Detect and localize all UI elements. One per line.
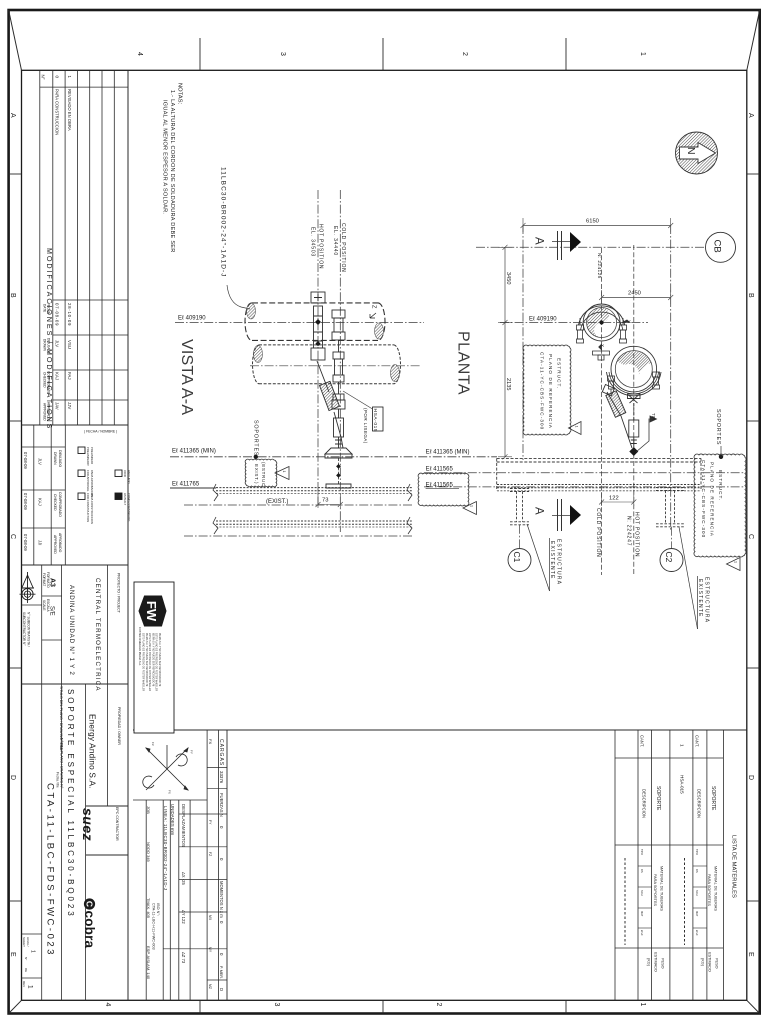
svg-text:N°: N° (41, 75, 46, 80)
svg-text:N: 224125: N: 224125 (596, 253, 602, 279)
dim 73 vista (317, 490, 319, 508)
svg-text:1: 1 (733, 561, 737, 563)
svg-text:1: 1 (470, 505, 474, 507)
svg-text:FZ: FZ (208, 852, 212, 856)
materials table verticals (614, 730, 616, 1000)
svg-text:FW: FW (144, 601, 159, 622)
clamp arcs circle 2 (607, 372, 662, 396)
svg-text:07-08-09: 07-08-09 (23, 534, 28, 551)
svg-text:2135: 2135 (505, 378, 511, 390)
svg-text:PROPIEDAD / OWNER: PROPIEDAD / OWNER (117, 707, 121, 745)
title block grid lines (22, 683, 129, 685)
loads table horizontals (207, 767, 227, 769)
svg-text:PARA SOPORTES: PARA SOPORTES (707, 874, 711, 906)
svg-text:SUBCONTRACTOR N°: SUBCONTRACTOR N° (22, 612, 26, 646)
svg-text:SOPORTE: SOPORTE (655, 786, 661, 811)
dim 6150 (523, 225, 671, 227)
signature block grid (33, 425, 35, 565)
cold line planta (601, 248, 603, 575)
materials table horizontals (615, 757, 723, 759)
svg-text:FOR APPROVAL: FOR APPROVAL (86, 470, 90, 492)
svg-text:TIPO: TIPO (695, 849, 699, 855)
svg-text:(KG): (KG) (647, 958, 651, 967)
pipe 2 vista (lower) (253, 345, 401, 384)
svg-text:A3: A3 (49, 578, 56, 587)
svg-text:1: 1 (639, 1003, 646, 1007)
svg-text:HSA-015: HSA-015 (680, 775, 685, 794)
clamp bolt right c1 (620, 318, 627, 343)
svg-text:N: N (685, 147, 697, 155)
grid line right planta (670, 225, 672, 530)
svg-text:07-08-09: 07-08-09 (23, 452, 28, 469)
svg-text:ΔZ 73: ΔZ 73 (181, 952, 186, 964)
svg-text:28-10-09: 28-10-09 (67, 303, 72, 326)
turnbuckle vertical (334, 409, 344, 448)
svg-text:FUERZAS N: FUERZAS N (219, 793, 224, 817)
svg-text:2450: 2450 (628, 291, 641, 297)
svg-text:D: D (9, 775, 16, 780)
FW logo emblem (139, 596, 166, 626)
hanger below circle 2 (628, 394, 641, 447)
svg-text:COLD POSITION: COLD POSITION (595, 508, 601, 558)
svg-text:LISTA DE MATERIALES: LISTA DE MATERIALES (731, 835, 737, 898)
svg-text:DN: DN (640, 869, 644, 873)
svg-text:COMPROBADO: COMPROBADO (58, 492, 62, 517)
svg-text:FOR CONSTRUCTION: FOR CONSTRUCTION (86, 493, 90, 522)
revision triangle left cloud (569, 422, 582, 435)
svg-text:D: D (219, 988, 224, 991)
svg-text:DESCRIPCION: DESCRIPCION (641, 789, 646, 818)
svg-text:REV: REV (22, 981, 26, 987)
zone ticks right edge (747, 173, 760, 175)
svg-text:REVISADO EN OBRA: REVISADO EN OBRA (67, 89, 72, 131)
svg-text:DRAWN: DRAWN (53, 452, 57, 465)
svg-text:PESO: PESO (715, 958, 719, 969)
svg-text:11LBC30-BR002-24"-1A1D-J: 11LBC30-BR002-24"-1A1D-J (220, 167, 227, 278)
svg-text:PLANO DE REFERENCIA: PLANO DE REFERENCIA (548, 354, 553, 429)
clamp bolt left c1 (577, 318, 584, 343)
svg-text:A: A (747, 113, 754, 118)
svg-text:MAT: MAT (640, 911, 644, 917)
svg-text:Energy Andino S.A.: Energy Andino S.A. (88, 714, 97, 789)
diagonal rod planta (602, 385, 632, 449)
svg-text:(KG): (KG) (701, 958, 705, 967)
revision table grid (39, 70, 41, 425)
C2 marker (671, 527, 673, 549)
svg-text:C: C (9, 534, 16, 539)
svg-text:TIP.: TIP. (651, 413, 656, 420)
svg-text:CB: CB (712, 240, 723, 253)
weld base plate lower (326, 484, 351, 488)
svg-text:4: 4 (136, 52, 143, 56)
svg-text:ESTIMADO: ESTIMADO (708, 952, 712, 972)
svg-text:( FECHA / NOMBRE ): ( FECHA / NOMBRE ) (84, 430, 117, 434)
hot position line vista (317, 190, 319, 505)
svg-text:FX: FX (208, 739, 213, 744)
svg-text:EXISTENTE: EXISTENTE (549, 541, 555, 580)
soportes exist cloud (245, 459, 277, 487)
svg-text:DN: DN (695, 869, 699, 873)
svg-text:FAJ: FAJ (67, 372, 72, 380)
svg-text:ESTRUCT.: ESTRUCT. (557, 358, 562, 389)
left strip right boundary (127, 70, 129, 1000)
svg-text:CTA-11-YC-CBS-FWC-300: CTA-11-YC-CBS-FWC-300 (540, 352, 545, 430)
hanger rod column 2 (332, 310, 345, 409)
svg-text:PROYECTO / PROJECT: PROYECTO / PROJECT (117, 573, 121, 614)
svg-text:Eℓ 411365 (MIN): Eℓ 411365 (MIN) (172, 448, 216, 455)
pipe 1 break hatch right (375, 323, 384, 339)
svg-text:ESTE PLANO ES PROPIEDAD DE FOS: ESTE PLANO ES PROPIEDAD DE FOSTER WHEELE… (155, 633, 158, 691)
svg-text:(ESTRUC.: (ESTRUC. (261, 462, 266, 489)
rod to beam (338, 458, 340, 484)
svg-text:SOPORTE: SOPORTE (710, 786, 716, 811)
grid line left planta (522, 225, 524, 460)
svg-text:CENTRAL TERMOELECTRICA: CENTRAL TERMOELECTRICA (94, 578, 101, 692)
I column 2 plan (656, 488, 684, 527)
planta beam bottom flange dense (497, 484, 701, 486)
svg-text:ANDINA UNIDAD N° 1 Y 2: ANDINA UNIDAD N° 1 Y 2 (68, 585, 75, 676)
estructura existente label 1 (527, 524, 550, 591)
svg-text:73: 73 (322, 498, 328, 504)
svg-text:N° SUBCONTRATISTA /: N° SUBCONTRATISTA / (27, 612, 31, 647)
clamp arcs circle 1 (579, 306, 625, 325)
svg-text:ESTIMADO: ESTIMADO (654, 952, 658, 972)
materials group 2 data row (624, 858, 626, 945)
status checkboxes (78, 447, 85, 454)
svg-text:APROBADO: APROBADO (58, 533, 62, 553)
pipe 2 break hatch right (391, 365, 400, 382)
north arrow (676, 132, 718, 174)
svg-text:DATE: DATE (43, 304, 47, 312)
svg-text:SCALE: SCALE (42, 600, 46, 610)
svg-text:1: 1 (680, 744, 685, 747)
svg-text:C: C (747, 534, 754, 539)
svg-text:NOTAS:: NOTAS: (177, 83, 183, 105)
svg-text:CARGAS: CARGAS (218, 739, 224, 766)
svg-text:Eℓ 409190: Eℓ 409190 (529, 316, 557, 323)
svg-text:DRAWN: DRAWN (43, 339, 47, 352)
svg-text:IGUAL AL MENOR ESPESOR A SOLDA: IGUAL AL MENOR ESPESOR A SOLDAR. (162, 100, 168, 214)
FW stamp box (134, 582, 174, 733)
svg-text:E: E (9, 952, 16, 957)
clouded elevation (418, 473, 469, 506)
svg-text:FORMAT: FORMAT (42, 573, 46, 586)
bottom strip top line (133, 729, 747, 731)
svg-text:SHEET: SHEET (22, 937, 26, 947)
svg-text:APPROVED: APPROVED (43, 403, 47, 421)
svg-text:PARA CONSTRUCCION: PARA CONSTRUCCION (55, 89, 60, 135)
weld base plate upper (325, 448, 352, 458)
svg-text:DE: DE (24, 968, 28, 972)
estructura existente label 2 (679, 527, 698, 629)
svg-text:EL. 34503: EL. 34503 (310, 227, 316, 257)
svg-text:ESTRUCTURA: ESTRUCTURA (556, 539, 562, 585)
revision table no-column divider (40, 86, 128, 88)
revision triangle 1 (275, 467, 289, 480)
svg-text:A: A (9, 113, 16, 118)
beam 1 centerline (184, 504, 414, 506)
svg-text:VOID: VOID (123, 470, 127, 477)
svg-text:HSA-015: HSA-015 (372, 409, 378, 433)
svg-text:EXIST.): EXIST.) (254, 464, 259, 484)
svg-text:6150: 6150 (586, 219, 599, 225)
svg-text:3450: 3450 (505, 272, 511, 284)
svg-text:W+F: W+F (640, 930, 644, 936)
svg-text:DIBUJADO: DIBUJADO (58, 450, 62, 468)
svg-text:LINEA: 11LBC30-BR002-24"-1A1D: LINEA: 11LBC30-BR002-24"-1A1D-J (163, 806, 168, 890)
svg-text:DESCRIPCION: DESCRIPCION (696, 789, 701, 818)
zone ticks top edge (199, 38, 201, 70)
planta beam outline (497, 458, 701, 490)
svg-text:ΔY 122: ΔY 122 (181, 910, 186, 924)
svg-text:DESPLAZAMIENTOS: DESPLAZAMIENTOS (181, 804, 186, 847)
svg-text:COLD POSITION: COLD POSITION (340, 223, 346, 273)
svg-text:TIPO: TIPO (640, 849, 644, 855)
pipe 1 vista (upper) (245, 303, 385, 341)
svg-text:P. MER.: P. MER. (219, 966, 223, 979)
svg-text:EPC CONTRACTOR: EPC CONTRACTOR (115, 807, 119, 841)
svg-text:CTA-11-LBC-FDS-FWC-023: CTA-11-LBC-FDS-FWC-023 (45, 783, 56, 957)
svg-text:CHECKED: CHECKED (53, 494, 57, 511)
svg-text:FX: FX (168, 790, 172, 794)
svg-text:KAJ: KAJ (38, 498, 43, 506)
svg-text:PARA SOPORTES: PARA SOPORTES (653, 874, 657, 906)
svg-text:122: 122 (609, 495, 619, 501)
svg-text:HOT POSITION: HOT POSITION (633, 512, 639, 557)
svg-text:JLV: JLV (55, 340, 60, 347)
svg-text:FZ: FZ (151, 742, 155, 746)
load axes sketch (143, 745, 188, 790)
svg-text:SOPORTES: SOPORTES (253, 420, 259, 456)
svg-text:(POR LISEGA): (POR LISEGA) (363, 408, 368, 444)
svg-text:FY: FY (208, 820, 212, 825)
svg-text:1: 1 (27, 985, 34, 989)
dim 122 (601, 492, 603, 506)
beam 2 centerline (184, 535, 414, 537)
svg-text:PRELIMINARY: PRELIMINARY (86, 447, 90, 466)
zone ticks left edge (9, 173, 22, 175)
svg-text:3: 3 (273, 1003, 280, 1007)
svg-text:SCH: SCH (695, 890, 699, 896)
svg-text:FOSTER WHEELER IBERIA S.A.: FOSTER WHEELER IBERIA S.A. (138, 627, 142, 666)
svg-text:33376: 33376 (219, 771, 224, 784)
svg-text:IBERIA S.A. Y NO PUEDE SER REP: IBERIA S.A. Y NO PUEDE SER REPRODUCIDO N… (151, 633, 154, 687)
clamp bolt left c2 (608, 376, 615, 394)
revision triangle right cloud (727, 558, 741, 571)
svg-text:MATERIAL DE TUBERIAS: MATERIAL DE TUBERIAS (660, 866, 664, 911)
svg-text:EXISTENTE: EXISTENTE (697, 579, 703, 618)
svg-text:MY: MY (208, 947, 212, 953)
svg-text:MOMENTOS N x m: MOMENTOS N x m (219, 881, 224, 918)
beam 1 vista top flange (216, 487, 412, 489)
svg-text:ISO N°:: ISO N°: (156, 903, 160, 916)
registration symbols (21, 572, 34, 600)
svg-text:S/E: S/E (49, 606, 55, 616)
svg-text:VISTA A-A: VISTA A-A (178, 339, 195, 415)
svg-text:JAV: JAV (55, 402, 60, 410)
svg-text:CANT.: CANT. (694, 735, 699, 747)
svg-text:ΔX -25: ΔX -25 (181, 872, 186, 885)
svg-text:1: 1 (575, 426, 579, 428)
svg-text:(EXIST.): (EXIST.) (266, 499, 288, 505)
diagonal turnbuckle rod (317, 361, 343, 448)
svg-text:ESP. AISLAM. 140: ESP. AISLAM. 140 (146, 946, 151, 980)
svg-text:ESTE PLANO ES PROPIEDAD DE FOS: ESTE PLANO ES PROPIEDAD DE FOSTER WHEELE… (142, 633, 145, 691)
label HSA-015 POR LISEGA (373, 407, 384, 431)
svg-text:B: B (747, 293, 754, 298)
svg-text:VSU: VSU (67, 340, 72, 349)
bottom bracket c1 (593, 351, 610, 360)
clamp bolt right c2 (653, 372, 660, 389)
svg-text:A: A (533, 507, 545, 515)
svg-text:CHECKED: CHECKED (43, 372, 47, 388)
svg-text:07-08-09: 07-08-09 (23, 493, 28, 510)
svg-text:MZ: MZ (208, 984, 212, 989)
svg-text:CTA-11-YC-CBS-FWC-300: CTA-11-YC-CBS-FWC-300 (701, 460, 706, 538)
svg-text:SOPORTES: SOPORTES (715, 409, 721, 445)
svg-text:Eℓ 411365 (MIN): Eℓ 411365 (MIN) (426, 449, 470, 456)
svg-text:PLANO DE REFERENCIA: PLANO DE REFERENCIA (710, 462, 715, 537)
svg-text:suez: suez (80, 808, 96, 841)
weld flag TIP (636, 416, 657, 452)
svg-text:cobra: cobra (82, 911, 97, 949)
svg-text:Eℓ 411565: Eℓ 411565 (426, 466, 454, 473)
svg-text:W+F: W+F (695, 930, 699, 936)
pipe 1 break hatch left (247, 303, 256, 319)
svg-text:CANT.: CANT. (639, 735, 644, 747)
cold position line vista (339, 190, 341, 532)
svg-text:D: D (747, 775, 754, 780)
svg-text:JJV: JJV (67, 402, 72, 409)
svg-text:1.- LA ALTURA DEL CORDON DE S: 1.- LA ALTURA DEL CORDON DE SOLDADURA DE… (169, 90, 175, 253)
svg-text:2: 2 (435, 1003, 442, 1007)
corner cut marks (9, 10, 22, 70)
svg-text:JLV: JLV (38, 458, 43, 465)
svg-text:ESTE PLANO ES PROPIEDAD DE FOS: ESTE PLANO ES PROPIEDAD DE FOSTER WHEELE… (148, 633, 151, 691)
C1 marker (519, 525, 521, 549)
cobra logo (82, 898, 97, 948)
svg-text:3: 3 (279, 52, 286, 56)
svg-text:E: E (747, 952, 754, 957)
svg-text:AS BUILT: AS BUILT (123, 493, 127, 506)
loads table verticals (145, 800, 147, 1000)
svg-text:N: 224247: N: 224247 (625, 516, 631, 546)
svg-text:C2: C2 (664, 552, 674, 563)
pipe circle 1 planta (583, 304, 620, 341)
CB axis line (476, 246, 706, 248)
dim 2135 vertical (504, 323, 506, 457)
svg-text:B: B (9, 293, 16, 298)
svg-text:Eℓ 411765: Eℓ 411765 (172, 481, 200, 488)
svg-text:APPROVED: APPROVED (53, 535, 57, 554)
CB bubble (706, 232, 736, 262)
svg-text:JJI: JJI (38, 540, 43, 545)
pipe circle 2 planta (611, 346, 657, 392)
revision triangle elevation (463, 502, 476, 515)
signature block divider (22, 424, 129, 426)
hot line planta (633, 245, 635, 575)
svg-text:MX: MX (208, 915, 212, 921)
svg-text:2: 2 (461, 52, 468, 56)
zone ticks bottom edge (199, 1000, 201, 1013)
svg-text:4: 4 (104, 1003, 111, 1007)
svg-text:SCH: SCH (640, 890, 644, 896)
svg-text:UNIDADES mm: UNIDADES mm (170, 804, 175, 836)
I column 1 plan (510, 489, 529, 525)
svg-text:TMAX. 405: TMAX. 405 (146, 898, 151, 919)
svg-text:Eℓ 409190: Eℓ 409190 (178, 315, 206, 322)
beam 2 vista (216, 520, 412, 522)
revision table date columns (53, 299, 128, 301)
svg-text:IBERIA S.A. Y NO PUEDE SER REP: IBERIA S.A. Y NO PUEDE SER REPRODUCIDO N… (145, 633, 148, 687)
svg-text:HOT POSITION: HOT POSITION (318, 224, 324, 269)
svg-text:A: A (533, 237, 545, 245)
beam break marks left (213, 484, 218, 501)
clamp bolts marks (315, 319, 321, 325)
hanger clamp column at hot line (311, 292, 325, 360)
svg-text:PLANTA: PLANTA (455, 331, 472, 395)
svg-text:SOPORTE ESPECIAL 11LBC30-BQ: SOPORTE ESPECIAL 11LBC30-BQ023 (66, 689, 75, 919)
pipe 2 centerline (250, 365, 420, 367)
svg-text:07-08-09: 07-08-09 (55, 303, 60, 326)
svg-text:1: 1 (282, 471, 286, 473)
svg-text:NODO 349: NODO 349 (146, 842, 151, 863)
cloud estructura referencia right (694, 454, 746, 557)
svg-text:ESTRUCT.: ESTRUCT. (718, 470, 723, 501)
cloud estructura referencia left (523, 345, 571, 435)
pipe 2 break hatch left (254, 346, 263, 363)
svg-text:PESO: PESO (661, 958, 665, 969)
svg-text:1: 1 (639, 52, 646, 56)
svg-text:MAT: MAT (695, 911, 699, 917)
svg-text:FY: FY (190, 750, 194, 754)
svg-text:JOB: JOB (146, 806, 151, 814)
dim 3450 vertical (504, 247, 506, 322)
svg-text:EL. 34440: EL. 34440 (332, 226, 338, 256)
svg-text:MATERIAL DE TUBERIAS: MATERIAL DE TUBERIAS (714, 866, 718, 911)
dim 2450 (602, 297, 671, 299)
svg-text:1: 1 (30, 950, 36, 953)
svg-text:C1: C1 (512, 552, 522, 563)
svg-text:ESTRUCTURA: ESTRUCTURA (704, 577, 710, 623)
svg-text:IBERIA S.A. Y NO PUEDE SER REP: IBERIA S.A. Y NO PUEDE SER REPRODUCIDO N… (158, 633, 161, 687)
svg-text:Eℓ 411565: Eℓ 411565 (426, 482, 454, 489)
svg-text:C: C (85, 901, 95, 907)
svg-text:KAJ: KAJ (55, 372, 60, 380)
